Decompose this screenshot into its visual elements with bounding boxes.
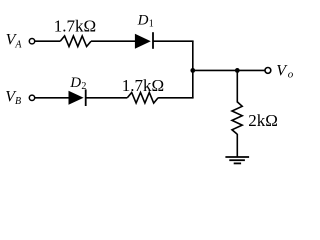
node output tap	[235, 68, 240, 73]
svg-text:1.7kΩ: 1.7kΩ	[54, 17, 96, 36]
wire	[158, 97, 194, 99]
diode D2	[69, 89, 86, 106]
wire	[91, 40, 135, 42]
svg-text:Vo: Vo	[276, 62, 293, 80]
svg-text:1.7kΩ: 1.7kΩ	[122, 76, 164, 95]
terminal VA	[29, 39, 34, 44]
svg-text:D: D	[69, 75, 81, 91]
wire	[86, 97, 128, 99]
resistor R2 1.7k	[127, 93, 158, 104]
ground	[225, 157, 249, 163]
svg-text:VA: VA	[6, 32, 23, 51]
wire	[153, 40, 194, 42]
resistor R3 2k	[232, 102, 242, 134]
wire	[192, 41, 194, 98]
svg-text:1: 1	[149, 19, 154, 30]
terminal VB	[29, 95, 34, 100]
wire	[35, 40, 60, 42]
svg-text:D: D	[137, 13, 149, 29]
node junction	[190, 68, 195, 73]
terminal Vo	[265, 68, 271, 74]
svg-text:2: 2	[81, 81, 86, 92]
svg-text:VB: VB	[5, 89, 21, 108]
wire	[193, 69, 265, 71]
resistor R1 1.7k	[60, 36, 91, 47]
svg-text:2kΩ: 2kΩ	[248, 111, 278, 130]
wire	[35, 97, 69, 99]
wire	[236, 134, 238, 157]
wire	[236, 70, 238, 102]
diode D1	[135, 32, 153, 49]
